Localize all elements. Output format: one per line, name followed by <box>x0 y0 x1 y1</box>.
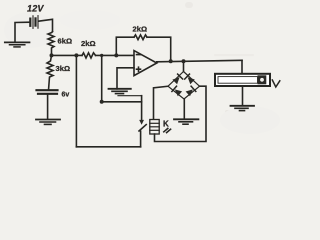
op-amp U1 <box>134 51 157 76</box>
label 2kOhm feedback <box>133 25 148 34</box>
wire battery top <box>15 19 53 42</box>
ground bridge <box>174 99 198 124</box>
label K <box>163 120 169 129</box>
label 2kOhm input <box>81 39 96 48</box>
wire output <box>157 60 242 62</box>
node switch-branch junction <box>100 54 103 57</box>
svg-text:6kΩ: 6kΩ <box>58 37 73 46</box>
battery B1 <box>30 16 38 29</box>
label 12V <box>27 4 44 14</box>
wire left rail down <box>75 55 77 146</box>
bridge rectifier D1-D4 <box>168 72 200 100</box>
svg-text:2kΩ: 2kΩ <box>133 25 148 34</box>
resistor R2 2k input <box>82 53 96 58</box>
relay armature mark <box>164 128 171 132</box>
node inverting-input junction <box>114 53 118 57</box>
label 6kOhm <box>58 37 73 46</box>
wire switch branch <box>102 55 142 101</box>
ground top-left <box>5 42 30 47</box>
svg-text:2kΩ: 2kΩ <box>81 39 96 48</box>
pin plus <box>137 67 141 71</box>
svg-text:6v: 6v <box>62 92 70 99</box>
wire bridge top stub <box>183 61 185 71</box>
node switch wire junction <box>100 100 104 104</box>
wire input line <box>52 54 135 56</box>
svg-text:K: K <box>163 120 169 129</box>
resistor R1 6k <box>48 32 54 56</box>
check mark <box>272 80 280 87</box>
node bottom-branch junction <box>74 53 78 57</box>
svg-text:12V: 12V <box>27 4 44 14</box>
relay switch contact <box>139 96 146 147</box>
faint print-through smudge <box>4 2 280 134</box>
resistor R4 2k feedback <box>116 35 170 62</box>
resistor R3 3k <box>47 55 53 90</box>
wire bridge left to relay <box>154 86 169 119</box>
relay coil K <box>150 120 159 135</box>
wire bottom rail <box>76 146 140 148</box>
load box sounder <box>215 74 270 86</box>
capacitor C1 <box>37 90 58 119</box>
pin minus <box>137 54 141 56</box>
node bridge-top junction <box>182 59 186 63</box>
ground capacitor <box>36 120 60 125</box>
node divider junction <box>50 53 54 57</box>
label 6v <box>62 92 70 99</box>
wire noninverting input <box>117 68 134 89</box>
svg-text:3kΩ: 3kΩ <box>56 64 71 73</box>
node feedback-output junction <box>169 59 173 63</box>
wire output down to load <box>241 60 243 74</box>
wire relay bottom <box>155 86 207 141</box>
label 3kOhm <box>56 64 71 73</box>
ground load <box>231 86 255 111</box>
ground op-amp input <box>109 89 142 96</box>
